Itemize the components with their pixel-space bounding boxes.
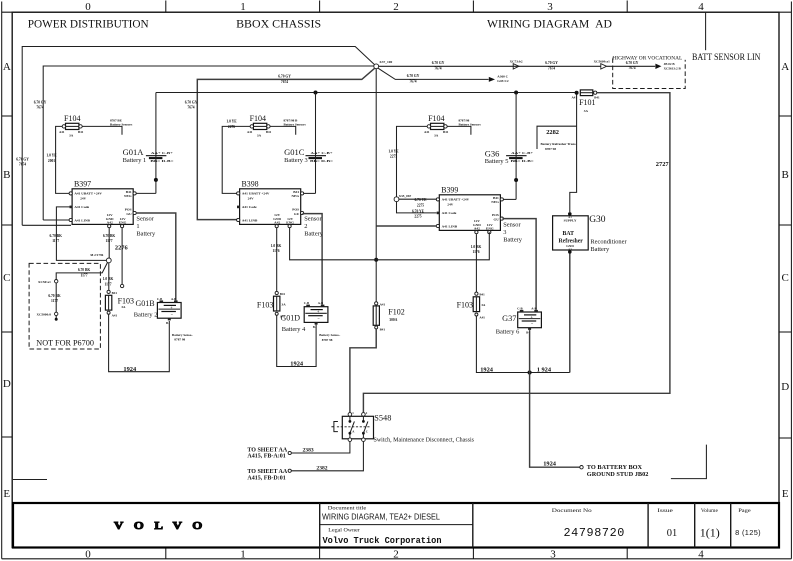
label TO BATTERY BOX GROUND STUD JB02 (587, 464, 649, 478)
svg-text:V O L V O: V O L V O (114, 520, 206, 532)
wire B397 NEG to feed (136, 192, 156, 194)
wire label 1177 on code wire (50, 234, 63, 238)
fuse F103 group 3 (457, 292, 486, 319)
wire label 1177 on GND wire (103, 234, 116, 238)
label G01B Battery 2 (134, 299, 158, 318)
label TO SHEET AA FB-D (247, 469, 287, 482)
ground splice junction circle (106, 258, 111, 263)
svg-text:6.70 BK: 6.70 BK (48, 294, 61, 298)
grid column numbers top (85, 1, 704, 13)
title block document title cell (322, 506, 440, 521)
label battery sensor ref group 1 (110, 119, 123, 123)
wire splice diagonal into option box (56, 262, 107, 279)
label XC50:a1 (38, 280, 51, 284)
svg-text:F104: F104 (64, 114, 80, 123)
svg-text:1177: 1177 (105, 282, 112, 286)
svg-text:01: 01 (667, 528, 678, 539)
svg-text:F101: F101 (579, 98, 595, 107)
svg-text:1.0 YE: 1.0 YE (226, 120, 237, 124)
wire B398 NEG to feed (304, 192, 316, 194)
svg-text:A41 Code: A41 Code (442, 211, 457, 215)
svg-text:Switch, Maintenance Disconnect: Switch, Maintenance Disconnect, Chassis (374, 438, 475, 444)
svg-text:2: 2 (393, 548, 399, 560)
svg-text:SUPPLY: SUPPLY (564, 219, 577, 223)
svg-text:Battery Sensors: Battery Sensors (459, 123, 482, 127)
svg-text:G30: G30 (589, 215, 606, 225)
svg-text:1.0 BK: 1.0 BK (471, 245, 482, 249)
svg-text:2275: 2275 (417, 203, 424, 207)
label XI 2/1796 at splice (90, 253, 104, 257)
svg-text:JB 02 B: JB 02 B (664, 62, 676, 66)
svg-text:Battery Senso..: Battery Senso.. (172, 333, 193, 337)
label XC5000:8 (37, 313, 52, 317)
svg-text:6.70 GY: 6.70 GY (407, 74, 420, 78)
sheet continuation tick left (13, 479, 47, 481)
svg-text:6.70 BK: 6.70 BK (78, 268, 91, 272)
wire label group 2 (226, 120, 237, 124)
battery G01C (306, 151, 334, 163)
svg-text:C: C (366, 430, 368, 434)
svg-text:B: B (3, 169, 10, 181)
wire splice to B399 UBATT (399, 198, 437, 200)
wire fuse F104 to splice X35_067 (397, 126, 428, 197)
svg-text:2382: 2382 (316, 465, 327, 471)
svg-text:24798720: 24798720 (564, 526, 625, 540)
svg-text:XC73:b2: XC73:b2 (510, 60, 523, 64)
dashed option box HIGHWAY OR VOCATIONAL (613, 58, 686, 89)
svg-text:GU: GU (294, 212, 300, 216)
wire F102 to S548 pin 1 (350, 329, 376, 412)
svg-text:3A: 3A (481, 303, 486, 307)
svg-text:X37_100: X37_100 (379, 60, 392, 64)
grid column ticks top (166, 1, 627, 13)
svg-text:3A: 3A (282, 302, 287, 306)
wire 2727 from F101 to S548 pin 2 (363, 93, 670, 413)
svg-text:BBOX CHASSIS: BBOX CHASSIS (236, 17, 321, 31)
section divider line (705, 12, 707, 50)
svg-text:Battery 6: Battery 6 (496, 329, 520, 336)
wire 2276 from B397 ENG pin (121, 228, 123, 284)
svg-text:B399: B399 (441, 185, 458, 194)
fuse F103 group 2 (257, 291, 286, 318)
wire ground splice to fuse F103 group1 (108, 263, 110, 291)
connector arrow XC73:b2 on bus 2 (513, 64, 519, 69)
svg-text:1177: 1177 (52, 239, 59, 243)
label G01A Battery 1 (123, 147, 147, 164)
svg-text:A415, FB-D:01: A415, FB-D:01 (247, 475, 285, 481)
svg-text:A415, FB-A:01: A415, FB-A:01 (247, 454, 285, 460)
svg-text:G01B: G01B (136, 299, 155, 308)
wire B397 Code pin to ground splice (56, 207, 106, 261)
battery G37 (517, 306, 541, 334)
svg-text:POWER DISTRIBUTION: POWER DISTRIBUTION (28, 17, 149, 31)
svg-text:S548: S548 (374, 414, 391, 423)
svg-text:C: C (782, 272, 789, 284)
wire label 7674 inside option box (626, 61, 639, 65)
svg-text:Battery 1: Battery 1 (123, 157, 147, 164)
label HIGHWAY OR VOCATIONAL (612, 56, 682, 62)
wire 1924 group1: fuse F103 to G01B minus (109, 314, 170, 372)
label battery sensor note G01B (172, 333, 193, 342)
svg-text:1177: 1177 (51, 299, 58, 303)
wire B398 GND to fuse F103 group2 (276, 228, 278, 292)
svg-text:1176: 1176 (273, 249, 280, 253)
title block legal owner cell (323, 529, 442, 546)
svg-text:3A: 3A (257, 133, 262, 137)
wire between connector pins (55, 283, 57, 312)
wire bus 2 left vertical to LINB of B397 (43, 66, 374, 220)
svg-text:Battery Sensors: Battery Sensors (284, 123, 307, 127)
wire B397 GND down to ground splice (108, 228, 110, 258)
sheet continuation mark right (671, 445, 707, 479)
svg-text:B41: B41 (493, 196, 499, 200)
svg-text:B397: B397 (74, 179, 91, 188)
svg-text:A-B: A-B (531, 306, 536, 310)
svg-text:D: D (3, 378, 11, 390)
svg-text:WIRING DIAGRAM, TEA2+ DIESEL: WIRING DIAGRAM, TEA2+ DIESEL (322, 512, 440, 521)
wire fuse F104 right stub group 2 (270, 126, 296, 134)
grid column ticks bottom (166, 548, 627, 559)
fuse F104 group 3 (424, 114, 449, 137)
battery sensor control unit B397 (69, 179, 136, 227)
svg-text:1.0 BK: 1.0 BK (271, 244, 282, 248)
svg-text:Battery: Battery (590, 246, 610, 253)
svg-text:Volume: Volume (701, 509, 718, 514)
title block issue cell (657, 509, 677, 539)
svg-text:AA+ C-B+: AA+ C-B+ (151, 151, 173, 155)
label battery sensor ref group 3 (459, 119, 470, 123)
svg-text:300A: 300A (389, 318, 397, 322)
svg-text:1: 1 (240, 548, 246, 560)
svg-text:F104: F104 (428, 114, 444, 123)
svg-text:6.70 BK: 6.70 BK (50, 234, 63, 238)
svg-text:2: 2 (304, 223, 307, 230)
svg-text:4: 4 (698, 1, 704, 13)
svg-text:1176: 1176 (473, 250, 480, 254)
wire ENG bus B398 to B399 (290, 228, 490, 260)
wire label 7674 on bus 1 (16, 158, 29, 162)
svg-text:A-B: A-B (318, 301, 323, 305)
grid row letters left (3, 61, 11, 500)
wire vertical from splice X37 down to fuse F102 (375, 69, 377, 302)
svg-text:24V: 24V (248, 197, 255, 201)
fuse F104 group 1 (59, 114, 84, 137)
svg-text:F103: F103 (457, 300, 473, 309)
svg-text:1: 1 (136, 223, 139, 230)
svg-text:GU: GU (126, 212, 132, 216)
svg-text:8787 98: 8787 98 (322, 338, 333, 342)
battery sensor control unit B398 (237, 179, 304, 227)
svg-text:6.70 GY: 6.70 GY (16, 158, 29, 162)
svg-text:X35_067: X35_067 (399, 194, 412, 198)
svg-text:G36: G36 (485, 148, 500, 158)
wire bus 1 top-left loop (22, 47, 374, 226)
label battery sensor ref group 2 (284, 119, 299, 123)
svg-text:Battery Refresher Trans: Battery Refresher Trans (541, 142, 577, 146)
terminal ring 2382 (288, 469, 291, 472)
svg-text:XC50:a1: XC50:a1 (38, 280, 51, 284)
wire label 1176 group3 (471, 245, 482, 249)
wire B399 GND to fuse F103 group3 (475, 234, 477, 292)
reconditioner G30 (553, 212, 589, 254)
svg-text:G45:C2: G45:C2 (497, 79, 509, 83)
wire S548 pin C to sheet terminal 2382 (291, 442, 363, 471)
svg-text:1.0 YE: 1.0 YE (46, 154, 57, 158)
svg-text:1: 1 (240, 1, 246, 13)
title block page cell (735, 509, 761, 537)
grid row ticks right (779, 116, 791, 438)
wire fuse F104 right stub group 3 (447, 126, 471, 134)
fuse F104 group 2 (247, 114, 272, 137)
label Reconditioner Battery (590, 239, 627, 254)
svg-text:ENG: ENG (486, 227, 494, 231)
terminal ring to battery box ground stud (580, 466, 583, 469)
svg-text:F102: F102 (388, 307, 404, 316)
svg-text:Battery Senso..: Battery Senso.. (319, 333, 340, 337)
svg-text:8 (125): 8 (125) (735, 528, 761, 537)
svg-text:NEG: NEG (491, 200, 499, 204)
title block volume cell (700, 509, 720, 539)
wire bus 2 right segment to connector XC5609 (379, 65, 601, 67)
title block document no cell (552, 509, 625, 540)
svg-text:7674: 7674 (434, 66, 441, 70)
svg-text:F103: F103 (257, 300, 273, 309)
svg-text:2: 2 (393, 1, 399, 13)
label X37_100 (379, 60, 392, 64)
svg-text:6.70 YE: 6.70 YE (414, 198, 427, 202)
svg-text:B41: B41 (126, 190, 132, 194)
junction dot below G01A (154, 178, 158, 182)
svg-text:24V: 24V (447, 203, 454, 207)
svg-text:F104: F104 (250, 114, 266, 123)
svg-text:ENG: ENG (286, 221, 294, 225)
svg-text:TO SHEET AA: TO SHEET AA (247, 447, 287, 453)
label JB 02 B XC5613:2 (664, 62, 676, 66)
svg-text:GU: GU (494, 217, 500, 221)
wire B399 POS to G37 (503, 219, 537, 310)
svg-text:2001: 2001 (48, 159, 55, 163)
wire fuse F104 right stub group 1 (82, 126, 122, 134)
svg-text:C-B: C-B (304, 301, 309, 305)
svg-text:A-B: A-B (171, 297, 176, 301)
battery G01B (157, 297, 181, 325)
svg-text:Document title: Document title (328, 506, 367, 511)
svg-text:A360 C: A360 C (497, 75, 508, 79)
label TO SHEET AA FB-A (247, 447, 287, 459)
svg-text:A41 LINB: A41 LINB (442, 224, 458, 228)
svg-text:XC5000:8: XC5000:8 (37, 313, 52, 317)
svg-text:C-B: C-B (517, 306, 522, 310)
svg-text:XC5613:2 B: XC5613:2 B (664, 67, 682, 71)
wire battery feed G01A down to NEG of B397 (155, 93, 157, 194)
svg-text:Sensor: Sensor (503, 221, 521, 228)
svg-text:8787 BE: 8787 BE (110, 119, 123, 123)
svg-text:A: A (781, 61, 789, 73)
grid row ticks left (2, 116, 13, 437)
svg-text:B41: B41 (293, 190, 299, 194)
svg-text:6.70 GY: 6.70 GY (432, 61, 445, 65)
svg-text:BATT SENSOR LIN: BATT SENSOR LIN (692, 53, 761, 63)
battery G36 (506, 151, 534, 163)
junction dot G37 minus on 1924 bus (528, 370, 532, 374)
dashed box NOT FOR P6700 (29, 263, 100, 349)
svg-text:7674: 7674 (281, 80, 288, 84)
svg-text:Battery 3: Battery 3 (284, 157, 308, 164)
svg-text:3A: 3A (434, 133, 439, 137)
wire battery feed G36 down to NEG of B399 (515, 93, 517, 200)
svg-text:1(1): 1(1) (700, 525, 720, 539)
svg-text:B: B (782, 169, 789, 181)
svg-text:7674: 7674 (628, 66, 635, 70)
svg-text:Volvo Truck Corporation: Volvo Truck Corporation (323, 535, 442, 546)
wire battery feed G01C down to NEG of B398 (315, 93, 317, 194)
label G01C Battery 3 (284, 147, 308, 164)
svg-text:BB= D-B=: BB= D-B= (511, 159, 534, 163)
terminal arrow A360 C G45:C2 (489, 77, 495, 82)
svg-text:G01C: G01C (284, 147, 305, 157)
wire F101 to battery refresher 2282 outline (537, 95, 577, 213)
label G37 Battery 6 (496, 314, 520, 336)
svg-text:38 2/1796: 38 2/1796 (90, 253, 104, 257)
svg-text:2276: 2276 (228, 125, 235, 129)
grid row letters right (781, 61, 789, 500)
svg-text:POS: POS (492, 213, 499, 217)
svg-text:B41: B41 (266, 130, 272, 134)
svg-text:A41 LINB: A41 LINB (74, 218, 90, 222)
svg-text:ENG: ENG (119, 221, 127, 225)
svg-text:B41: B41 (112, 291, 118, 295)
svg-text:6.70 GY: 6.70 GY (185, 101, 198, 105)
wire G30 GND down to 1924 bus (569, 254, 571, 373)
svg-text:GROUND STUD JB02: GROUND STUD JB02 (587, 471, 649, 478)
svg-text:HIGHWAY OR VOCATIONAL: HIGHWAY OR VOCATIONAL (612, 56, 682, 62)
svg-text:Battery 2: Battery 2 (134, 311, 158, 318)
svg-text:Page: Page (738, 509, 751, 514)
terminal ring 2383 (288, 451, 291, 454)
svg-text:B41: B41 (479, 293, 485, 297)
wire B399 NEG to feed (503, 198, 516, 200)
svg-text:BB= D-B=: BB= D-B= (310, 159, 333, 163)
wire label group 1 (46, 154, 57, 158)
svg-text:1.0 BK: 1.0 BK (103, 277, 114, 281)
svg-text:6.70 GY: 6.70 GY (34, 101, 47, 105)
wire splice to B399 Code pin (397, 201, 437, 213)
label A360 C G45:C2 (497, 75, 508, 79)
svg-text:B41: B41 (78, 130, 84, 134)
battery sensor control unit B399 (436, 185, 503, 233)
svg-text:C: C (3, 272, 10, 284)
label battery sensor note G01D (319, 333, 340, 342)
label Sensor 3 Battery (503, 221, 523, 243)
wire 1924 group2: fuse F103 to G01D minus (277, 315, 316, 366)
svg-text:2383: 2383 (303, 448, 314, 454)
svg-text:Battery 4: Battery 4 (282, 326, 306, 333)
svg-text:POS: POS (125, 207, 132, 211)
svg-text:Battery: Battery (304, 230, 324, 237)
VOLVO logo (114, 520, 206, 532)
svg-text:WIRING DIAGRAM AD: WIRING DIAGRAM AD (487, 17, 612, 31)
svg-text:0: 0 (85, 1, 91, 13)
svg-text:POS: POS (292, 207, 299, 211)
svg-text:7674: 7674 (19, 163, 26, 167)
fuse F102 (373, 302, 405, 332)
svg-text:3: 3 (503, 229, 506, 236)
wire label 7674 on bus 3 horizontal (278, 75, 291, 79)
label G36 Battery 5 (485, 148, 509, 165)
svg-text:E: E (782, 488, 789, 500)
title block frame (13, 503, 779, 548)
svg-text:G01A: G01A (123, 147, 145, 157)
svg-text:3: 3 (547, 1, 553, 13)
wire fuse F104 to UBATT group 1 (56, 126, 70, 193)
svg-text:BAT: BAT (563, 231, 575, 237)
connector arrow XC5609:a1 (601, 64, 607, 69)
svg-text:0: 0 (85, 548, 91, 560)
svg-text:A42: A42 (474, 227, 480, 231)
terminal ring 2276 wire (120, 284, 123, 287)
svg-text:2275: 2275 (414, 215, 421, 219)
svg-text:8787 98: 8787 98 (545, 147, 556, 151)
svg-text:Battery Sensors: Battery Sensors (110, 123, 133, 127)
svg-text:Sensor: Sensor (136, 215, 154, 222)
label Sensor 2 Battery (304, 215, 324, 237)
svg-text:A: A (3, 61, 11, 73)
fuse F103 group 1 (105, 290, 134, 317)
wire label 1176 group2 (271, 244, 282, 248)
battery G01D (304, 301, 328, 329)
svg-text:Battery: Battery (503, 236, 523, 243)
label X35_067 (399, 194, 412, 198)
svg-text:24V: 24V (80, 197, 87, 201)
wire label 7674 after XC73 (545, 61, 558, 65)
wire F101 feed junction (575, 91, 579, 95)
svg-text:BB= D-B=: BB= D-B= (150, 159, 173, 163)
svg-text:8787 98: 8787 98 (174, 338, 185, 342)
wire B399 LINB to splice vertical (376, 225, 436, 227)
svg-text:B-: B- (313, 325, 316, 329)
svg-text:Reconditioner: Reconditioner (590, 239, 627, 246)
svg-text:1924: 1924 (480, 367, 494, 374)
svg-text:G37: G37 (502, 314, 516, 323)
svg-text:7674: 7674 (409, 79, 416, 83)
label XC5609:a1 (594, 60, 611, 64)
svg-text:B41: B41 (380, 327, 386, 331)
svg-text:E: E (3, 488, 10, 500)
svg-text:D: D (781, 381, 789, 393)
svg-text:B398: B398 (242, 179, 259, 188)
wire bus 4 battery positive feed (156, 92, 575, 94)
svg-text:Issue: Issue (657, 509, 673, 514)
svg-text:A41: A41 (479, 315, 485, 319)
label XC73:b2 (510, 60, 523, 64)
svg-text:2282: 2282 (546, 129, 559, 136)
wire B398 POS to G01D (302, 214, 322, 305)
svg-text:7674: 7674 (187, 106, 194, 110)
svg-text:NEG: NEG (292, 194, 300, 198)
svg-text:6.70 YE: 6.70 YE (412, 209, 425, 213)
wire into dashed option box (607, 65, 656, 67)
battery G01A (146, 151, 174, 163)
svg-text:6.70 BK: 6.70 BK (103, 234, 116, 238)
wire label 7674 on bus 3 (185, 101, 198, 105)
svg-text:B41: B41 (443, 130, 449, 134)
svg-text:G01D: G01D (281, 313, 301, 322)
svg-text:6.70 GY: 6.70 GY (545, 61, 558, 65)
svg-text:TO BATTERY BOX: TO BATTERY BOX (587, 464, 643, 471)
wire 1924 bus group3: F103 to G37 to G30 GND (476, 316, 569, 373)
label Sensor 1 Battery (136, 215, 156, 237)
svg-text:1177: 1177 (106, 239, 113, 243)
